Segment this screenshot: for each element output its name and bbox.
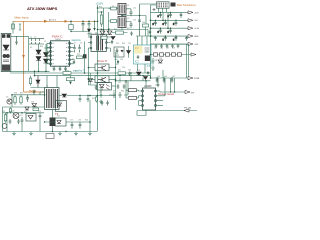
svg-text:IC4: IC4 (100, 81, 103, 83)
rail +5V (151, 12, 189, 20)
resistor bottom-left extra (9, 107, 11, 114)
opto feedback box (97, 83, 112, 91)
rail -12V (151, 43, 189, 45)
svg-text:C41: C41 (168, 14, 171, 16)
wire U3 left net (126, 81, 146, 106)
svg-text:Q1: Q1 (127, 5, 129, 7)
wire secondary feed rails (10, 71, 151, 78)
diode D10 (111, 37, 115, 40)
svg-text:Main Input: Main Input (15, 15, 29, 19)
resistor standby sec (95, 96, 97, 103)
rail +12V (151, 11, 189, 13)
svg-text:LM339: LM339 (144, 85, 152, 88)
svg-text:C1: C1 (30, 37, 32, 39)
resistor R36 (117, 60, 119, 64)
fuse F1 (12, 24, 15, 29)
svg-text:D9: D9 (108, 29, 110, 31)
capacitor bank -12V (155, 44, 180, 48)
svg-text:C54: C54 (160, 48, 163, 50)
wire inlet to filter (11, 36, 50, 71)
arrow down on feed (22, 55, 25, 59)
svg-text:C63: C63 (124, 82, 127, 84)
wire right verticals (187, 44, 189, 80)
svg-text:D12: D12 (116, 43, 119, 45)
svg-text:PG: PG (191, 92, 194, 94)
AC inlet module (1, 34, 11, 72)
transistor Q4 driver (95, 76, 109, 83)
snubber cell box (114, 47, 124, 57)
wire transistor mid tap (122, 15, 140, 30)
svg-text:Power Good: Power Good (159, 92, 175, 96)
capacitor row above yellow box (130, 32, 132, 36)
svg-text:D8: D8 (100, 29, 102, 31)
svg-text:R44: R44 (113, 91, 116, 93)
arrow 2 on AC line (65, 20, 69, 23)
diode bottom-left (25, 107, 29, 110)
capacitor bottom-left (17, 119, 20, 124)
arrow +5V (188, 19, 193, 22)
svg-text:C67: C67 (172, 76, 175, 78)
transformer T1 main (157, 2, 170, 8)
wire AC line (orange) (13, 20, 98, 22)
svg-text:R45: R45 (121, 91, 124, 93)
resistor R22 (101, 36, 107, 39)
diode marks under T1 (153, 8, 156, 11)
cap (26, 95, 29, 102)
svg-text:+12V: +12V (194, 12, 199, 14)
wire 5VSB secondary (59, 96, 116, 103)
svg-text:Q5: Q5 (6, 97, 8, 99)
transistor Q5 (7, 99, 12, 104)
transistor Q6 (13, 113, 19, 119)
svg-text:C50: C50 (163, 37, 166, 39)
arrow -12V (188, 42, 193, 45)
svg-text:R51: R51 (20, 93, 23, 95)
diode hang from rail (36, 76, 40, 87)
resistor vertical (4, 113, 6, 123)
svg-text:C8: C8 (80, 43, 82, 45)
transistor Q1 power (118, 4, 126, 15)
svg-text:R35: R35 (116, 55, 119, 57)
svg-text:C70: C70 (26, 97, 29, 99)
svg-text:CN2: CN2 (155, 85, 158, 87)
pin numbers IC1 (53, 43, 68, 64)
transistor Q2 power (118, 17, 126, 28)
svg-text:Drive Tr: Drive Tr (97, 59, 108, 63)
svg-text:C56: C56 (172, 48, 175, 50)
capacitor small right of IC1 (73, 60, 75, 64)
svg-text:C60: C60 (128, 70, 131, 72)
svg-text:prot: prot (135, 47, 139, 50)
wire caps to PG line (171, 78, 175, 92)
bridge rectifier (36, 50, 49, 63)
svg-text:-12V: -12V (194, 44, 199, 46)
svg-text:C47: C47 (168, 30, 171, 32)
rail GND (151, 35, 189, 37)
transformer T3 standby (45, 88, 60, 110)
svg-text:C46: C46 (158, 30, 161, 32)
wire PG out (160, 91, 185, 92)
transistor Q8 standby switch (50, 118, 56, 127)
arrow PS-ON (left) (184, 109, 189, 112)
svg-text:T2: T2 (108, 33, 110, 35)
svg-text:Q2: Q2 (127, 18, 129, 20)
wire U3 pin stubs (139, 91, 161, 105)
diode (32, 104, 37, 107)
svg-text:IC5: IC5 (24, 112, 27, 114)
svg-text:R56: R56 (85, 120, 88, 122)
component dark (83, 54, 87, 58)
ground fb (151, 66, 155, 71)
transistor Q7 (2, 124, 7, 129)
svg-text:R37: R37 (116, 64, 119, 66)
svg-text:IC2: IC2 (135, 61, 139, 64)
svg-text:+310V: +310V (96, 2, 104, 6)
svg-text:C77: C77 (100, 90, 103, 92)
capacitor right of T2 (111, 40, 113, 44)
resistor base Q2 (109, 20, 119, 22)
svg-text:snub: snub (114, 59, 118, 61)
caps bottom (21, 117, 24, 124)
rail labels (194, 12, 200, 46)
svg-text:C72: C72 (20, 115, 23, 117)
parts row mid right (115, 74, 117, 76)
caps right of IC1 (73, 45, 76, 53)
svg-text:R31: R31 (98, 43, 101, 45)
diode D13 (127, 51, 131, 54)
svg-text:GND: GND (194, 36, 199, 38)
svg-text:IC6: IC6 (57, 116, 60, 118)
svg-text:C62: C62 (118, 82, 121, 84)
caps on standby rail (156, 78, 159, 83)
resistor R62 (129, 96, 137, 99)
arrow 5VSB (188, 76, 193, 79)
wire U3 right stubs joins (160, 78, 165, 105)
svg-text:R52: R52 (2, 111, 5, 113)
wire (90, 100, 98, 132)
arrow GND (188, 35, 193, 38)
caps right of Q2 (130, 9, 133, 16)
wire T2 stubs (88, 37, 111, 48)
svg-text:C3: C3 (44, 41, 46, 43)
ground (88, 132, 92, 136)
svg-text:C31: C31 (128, 43, 131, 45)
svg-text:C49: C49 (153, 37, 156, 39)
svg-text:C51: C51 (174, 37, 177, 39)
svg-text:R50: R50 (14, 93, 17, 95)
opto box (55, 118, 66, 126)
svg-text:C66: C66 (164, 76, 167, 78)
svg-text:ATX 230W SMPS: ATX 230W SMPS (27, 6, 58, 11)
wire secondary bus left (151, 5, 167, 78)
svg-text:D25: D25 (31, 102, 34, 104)
label box (46, 134, 54, 139)
svg-text:C55: C55 (166, 48, 169, 50)
svg-text:D5: D5 (112, 6, 114, 8)
svg-text:C75: C75 (70, 120, 73, 122)
svg-text:C30: C30 (142, 22, 145, 24)
resistor R61 (129, 89, 137, 92)
svg-text:D14: D14 (122, 67, 125, 69)
ground marks (12, 132, 16, 136)
svg-text:BD1: BD1 (40, 46, 43, 48)
svg-text:Q6: Q6 (12, 111, 14, 113)
wire PS-ON (137, 110, 197, 116)
resistor R21 vertical (101, 12, 103, 27)
small parts under TL-middle (117, 84, 120, 89)
svg-text:L2: L2 (173, 22, 175, 24)
svg-text:R33: R33 (122, 43, 125, 45)
svg-text:3.3V: 3.3V (147, 65, 152, 68)
svg-text:R20: R20 (99, 7, 102, 9)
arrow fb (191, 53, 196, 56)
svg-text:R16: R16 (72, 59, 75, 61)
X caps (29, 39, 44, 44)
svg-text:C40: C40 (158, 15, 161, 17)
resistor hang from rail (29, 76, 31, 86)
svg-text:C73: C73 (38, 111, 41, 113)
svg-text:T2: T2 (90, 33, 92, 35)
svg-text:C7: C7 (74, 43, 76, 45)
box aux reg (56, 101, 67, 112)
box TL431 (26, 114, 36, 122)
svg-text:T3: T3 (46, 86, 48, 88)
svg-text:stand-by: stand-by (72, 39, 82, 42)
svg-text:C44: C44 (163, 22, 166, 24)
svg-text:R25: R25 (114, 29, 117, 31)
svg-text:C43: C43 (153, 22, 156, 24)
svg-text:C23: C23 (133, 20, 136, 22)
arrow PG (185, 90, 190, 93)
svg-text:D22: D22 (137, 70, 140, 72)
wire bridge (39, 44, 50, 71)
svg-text:R42: R42 (118, 70, 121, 72)
wire input drop (12, 21, 14, 33)
wire bottom bus (3, 107, 91, 132)
svg-text:PWM IC: PWM IC (52, 34, 63, 38)
arrow +3.3V (188, 27, 193, 30)
wire rail5V standby (151, 70, 189, 78)
parts below feed rails (47, 76, 71, 88)
svg-text:AC line: AC line (49, 18, 57, 21)
coupling cap (138, 4, 141, 36)
caps pair top (101, 101, 104, 106)
capacitor blobs (152, 15, 174, 41)
resistor (14, 95, 16, 105)
resistor base Q1 (109, 8, 119, 10)
svg-text:C53: C53 (154, 48, 157, 50)
transistor Q3 driver (95, 64, 109, 71)
svg-text:D27: D27 (60, 101, 63, 103)
wire primary bus (97, 5, 99, 131)
svg-text:C33: C33 (120, 59, 123, 61)
capacitor C below IC1 (53, 66, 56, 71)
diodes bottom of primary (100, 31, 105, 35)
resistor (77, 56, 83, 59)
svg-text:5VSB: 5VSB (194, 78, 199, 80)
svg-text:C58: C58 (154, 60, 157, 62)
wire top rails (98, 8, 137, 33)
wire orange vertical feed (24, 21, 45, 92)
snubber under AC line (71, 21, 89, 31)
label output rect (171, 3, 176, 7)
svg-text:C22: C22 (133, 8, 136, 10)
resistor R primary (116, 31, 124, 34)
parts below fb row (152, 58, 155, 65)
wire vertical feedback (84, 42, 86, 74)
svg-text:C65: C65 (157, 76, 160, 78)
arrow on AC line (44, 20, 48, 23)
wire driver links (89, 48, 116, 110)
svg-text:+3.3V: +3.3V (194, 28, 199, 30)
capacitor near U3 (157, 78, 160, 87)
svg-text:C2: C2 (34, 37, 36, 39)
parts near T1 primary (143, 24, 149, 27)
rail +3.3V (151, 12, 189, 28)
svg-text:R40: R40 (66, 71, 69, 73)
protection block IC2 (134, 45, 152, 64)
svg-text:PS-ON: PS-ON (184, 108, 191, 110)
capacitor near 5VSB (33, 90, 36, 95)
capacitor bank rails (154, 12, 188, 40)
wire IC1 pins (47, 43, 74, 64)
caps (71, 122, 74, 129)
svg-text:Main Transformer: Main Transformer (177, 4, 196, 7)
svg-text:C76: C76 (78, 120, 81, 122)
wire standby left (3, 92, 45, 113)
arrow +12V (188, 11, 193, 14)
thermistor (19, 24, 21, 30)
svg-text:R15: R15 (77, 54, 80, 56)
wire into protection block (138, 16, 148, 74)
diode D27 standby out (62, 94, 67, 97)
svg-text:R55: R55 (92, 98, 95, 100)
svg-text:L4: L4 (75, 71, 77, 73)
svg-text:D20: D20 (159, 58, 162, 60)
svg-text:R2: R2 (30, 47, 32, 49)
svg-text:R27: R27 (127, 28, 130, 30)
